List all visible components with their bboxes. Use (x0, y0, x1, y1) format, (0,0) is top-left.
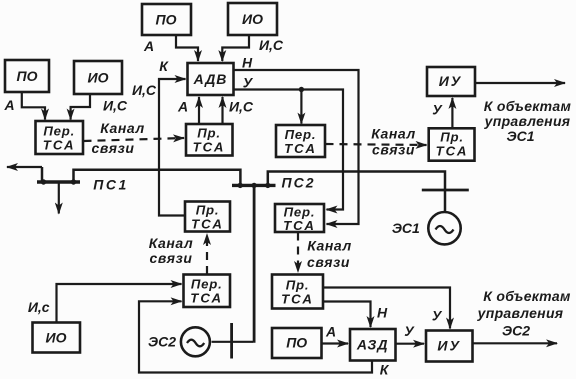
dashed channel Пер.ТСА to Пр.ТСА (right) (326, 144, 427, 145)
breaker bar ЭС2 (230, 323, 233, 359)
svg-text:У: У (243, 75, 254, 91)
svg-text:связи: связи (150, 250, 193, 266)
junction dot ПС1 left (41, 179, 46, 184)
busbar ПС2 (232, 184, 276, 187)
svg-text:К объектам: К объектам (483, 288, 571, 304)
svg-text:АДВ: АДВ (193, 71, 228, 87)
wire Пр.ТСА(bottom) Н to АЗД (323, 302, 371, 328)
wire ИО(top) to АДВ input И,С (222, 36, 249, 62)
dashed channel Пер.ТСА ЭС2 down to Пр.ТСА bottom (297, 233, 299, 273)
svg-text:А: А (177, 99, 188, 115)
svg-text:ЭС2: ЭС2 (502, 323, 530, 339)
svg-text:Канал: Канал (307, 238, 352, 254)
svg-text:А: А (143, 38, 154, 54)
svg-text:Н: Н (242, 55, 253, 71)
svg-text:ПС2: ПС2 (282, 175, 316, 191)
wire left line arrow from ПС1 (7, 166, 42, 168)
box ИО (left) (74, 61, 122, 94)
svg-text:связи: связи (307, 254, 350, 270)
wire У junction down to Пер.ТСА (top) (300, 90, 302, 124)
junction dot ПС2 right (265, 183, 270, 188)
svg-text:ПО: ПО (286, 335, 307, 351)
svg-text:Пр.: Пр. (440, 130, 464, 145)
svg-text:Н: Н (377, 305, 388, 321)
svg-text:Пр.: Пр. (286, 278, 310, 293)
svg-text:Пр.: Пр. (197, 126, 221, 141)
generator ЭС1 tilde (436, 226, 454, 233)
box Пер.ТСА (ПС1 side transmitter) (36, 121, 84, 154)
box АЗД (350, 329, 396, 361)
svg-text:У: У (404, 323, 415, 339)
wire ИУ output to ЭС2 objects (473, 342, 558, 344)
svg-text:ПО: ПО (156, 12, 177, 28)
wire ЭС2 generator to riser (212, 341, 253, 343)
box Пр.ТСА (below АДВ receiver) (186, 124, 233, 156)
wire ИО(left) to Пер.ТСА (71, 95, 90, 120)
svg-text:АЗД: АЗД (356, 337, 389, 353)
wire АЗД У to ИУ(bottom) (396, 343, 425, 345)
svg-text:Пер.: Пер. (191, 277, 223, 292)
dashed channel Пер.ТСА to Пр.ТСА (top left) (84, 138, 185, 141)
breaker bar ЭС1 (422, 189, 469, 192)
svg-text:Пер.: Пер. (43, 124, 75, 139)
svg-text:Канал: Канал (100, 120, 145, 136)
wire ИО(bottom) И,с to Пер.ТСА (57, 284, 182, 323)
box ИУ (bottom right actuator) (426, 331, 473, 362)
svg-text:У: У (432, 308, 443, 324)
svg-text:связи: связи (372, 142, 415, 158)
svg-text:И,С: И,С (103, 98, 128, 114)
svg-text:ТСА: ТСА (436, 144, 469, 159)
box ПО (left) (5, 60, 49, 92)
dashed channel Пер.ТСА(ЭС2 tx) up to Пр.ТСА middle (206, 234, 208, 274)
svg-text:Пер.: Пер. (285, 127, 317, 142)
busbar ПС1 (37, 180, 80, 183)
svg-text:И,С: И,С (132, 82, 157, 98)
generator ЭС1 circle (428, 212, 460, 244)
svg-text:ИО: ИО (46, 330, 67, 346)
svg-text:ЭС1: ЭС1 (392, 220, 420, 236)
generator ЭС2 tilde (187, 340, 204, 347)
box Пр.ТСА (bottom receiver) (272, 275, 323, 309)
box Пер.ТСА (top middle transmitter) (276, 125, 325, 157)
svg-text:связи: связи (92, 140, 135, 156)
svg-text:ИО: ИО (88, 70, 109, 86)
svg-text:ЭС1: ЭС1 (507, 128, 535, 144)
wire ПС2 to ЭС1 generator (268, 172, 445, 212)
wire ПО(top) to АДВ input A (176, 36, 198, 62)
svg-text:ПО: ПО (17, 68, 38, 84)
svg-text:К: К (159, 58, 169, 74)
junction dot ПС1 right (71, 179, 76, 184)
wire ПО(bottom) А to АЗД (322, 342, 349, 344)
svg-text:И,С: И,С (229, 99, 254, 115)
box ПО (top, operative personnel) (142, 4, 191, 35)
wire Пр.ТСА up to ИУ (451, 98, 453, 129)
wire Пр.ТСА(bottom) У to ИУ(bottom) (323, 288, 450, 329)
wire У output of АДВ to Пер.ТСА ЭС2 (234, 90, 344, 210)
wire К feedback from АЗД to Пер.ТСА (139, 301, 372, 372)
wire ИУ output to ЭС1 objects (475, 82, 565, 84)
box Пр.ТСА (right receiver) (429, 128, 475, 160)
svg-text:управления: управления (484, 113, 571, 129)
svg-text:К: К (380, 362, 390, 378)
svg-text:И,С: И,С (259, 37, 284, 53)
box ИО (top, measuring devices) (228, 3, 277, 35)
box ИО (bottom left) (33, 323, 81, 353)
junction dot ПС2 left (238, 183, 243, 188)
op block АДВ U1 (188, 63, 234, 95)
wire ЭС2 riser to ПС2 (253, 185, 256, 342)
wire feeder arrow down from ПС1 (58, 182, 60, 214)
box ПО (bottom) (272, 328, 322, 358)
svg-text:ТСА: ТСА (281, 292, 314, 307)
svg-text:ИУ: ИУ (439, 73, 463, 89)
svg-text:А: А (3, 97, 14, 113)
svg-text:ЭС2: ЭС2 (148, 334, 176, 350)
svg-text:ПС1: ПС1 (93, 177, 128, 193)
wire Н output of АДВ to Пер.ТСА ЭС2 (234, 70, 359, 224)
svg-text:ТСА: ТСА (43, 138, 76, 153)
wire K input to АДВ from Пр.ТСА (middle) (159, 79, 186, 216)
svg-text:ТСА: ТСА (193, 140, 226, 155)
svg-text:ИО: ИО (242, 11, 263, 27)
junction dot on У line (299, 87, 304, 92)
wire ПО(left) to Пер.ТСА (22, 93, 45, 120)
wire riser to ПС1 bus (41, 167, 44, 182)
svg-text:ИУ: ИУ (437, 338, 461, 354)
box Пер.ТСА (ЭС2 H/У receiver side) (275, 204, 324, 232)
svg-text:К объектам: К объектам (484, 98, 572, 114)
box Пр.ТСА (middle receiver for K) (185, 202, 230, 232)
svg-text:А: А (325, 324, 336, 340)
box ИУ (top right actuator) (427, 67, 475, 96)
svg-text:Канал: Канал (149, 235, 194, 251)
svg-text:У: У (432, 102, 443, 118)
generator ЭС2 circle (181, 327, 210, 356)
svg-text:Канал: Канал (371, 126, 416, 142)
junction dot ПС2 middle (251, 183, 256, 188)
svg-text:ТСА: ТСА (191, 217, 224, 232)
box Пер.ТСА (ЭС2 transmitter bottom left) (184, 275, 231, 308)
svg-text:ТСА: ТСА (283, 218, 316, 233)
svg-text:управления: управления (477, 305, 564, 321)
wire tie line ПС1 to ПС2 (74, 170, 241, 186)
wire Пр.ТСА to АДВ arrow И,С (221, 97, 223, 124)
wire Пр.ТСА to АДВ arrow A (198, 97, 200, 124)
svg-text:И,с: И,с (28, 299, 50, 315)
svg-text:ТСА: ТСА (190, 291, 223, 306)
svg-text:ТСА: ТСА (284, 141, 317, 156)
svg-text:Пр.: Пр. (196, 203, 220, 218)
